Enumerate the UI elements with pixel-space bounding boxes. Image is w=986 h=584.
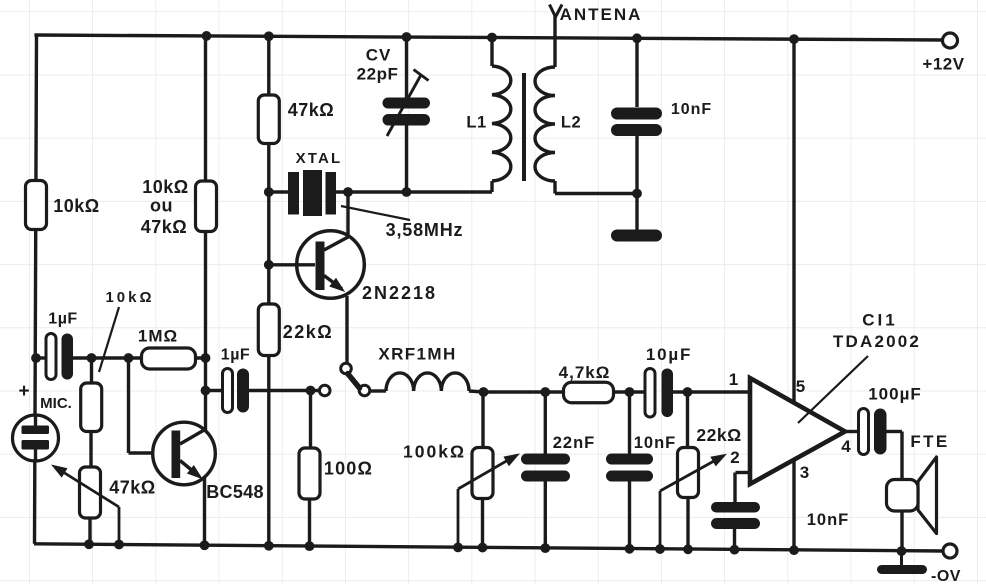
wire 2N2218 base bbox=[269, 263, 315, 266]
svg-text:10nF: 10nF bbox=[807, 511, 850, 529]
speaker FTE bbox=[918, 457, 937, 534]
microphone MIC electret bbox=[13, 415, 59, 461]
capacitor 1uF (mic) bbox=[46, 334, 56, 380]
junction 4,7k / 10uF bbox=[625, 387, 635, 397]
resistor 10k (left rail) bbox=[26, 181, 47, 230]
junction choke / 100k bbox=[479, 387, 489, 397]
wire to speaker bbox=[887, 430, 903, 433]
svg-text:L1: L1 bbox=[466, 114, 486, 132]
junction left rail / mic wire bbox=[31, 353, 41, 363]
junction bottom rail / 22k pot bbox=[683, 544, 693, 554]
wire pin5 branch bbox=[792, 39, 795, 404]
capacitor 10nF (filter) bbox=[628, 392, 631, 454]
svg-text:100Ω: 100Ω bbox=[324, 459, 373, 479]
junction 22nF branch bbox=[540, 387, 550, 397]
junction base branch bbox=[124, 353, 134, 363]
wire BC548 base bbox=[127, 358, 130, 453]
svg-text:4,7kΩ: 4,7kΩ bbox=[559, 363, 611, 382]
svg-text:1µF: 1µF bbox=[48, 311, 77, 328]
capacitor 10uF bbox=[645, 369, 655, 418]
svg-text:ANTENA: ANTENA bbox=[560, 5, 643, 24]
junction bottom rail / 47k wiper bbox=[114, 540, 124, 550]
antenna arrow bbox=[550, 5, 556, 18]
resistor 47k (oscillator bias) bbox=[258, 95, 279, 144]
svg-text:CI1: CI1 bbox=[862, 311, 897, 330]
resistor 100R bbox=[309, 391, 312, 449]
junction 10k branch bbox=[87, 353, 97, 363]
svg-text:BC548: BC548 bbox=[206, 482, 264, 502]
svg-text:22pF: 22pF bbox=[357, 65, 399, 84]
22k pot wiper arrow bbox=[659, 491, 662, 549]
47k pot wiper arrow bbox=[118, 507, 121, 545]
junction bottom rail / BC548 emitter bbox=[200, 540, 210, 550]
svg-text:5: 5 bbox=[796, 377, 805, 396]
resistor 10k ou 47k bbox=[196, 181, 217, 232]
junction top rail / 10nF branch bbox=[632, 33, 642, 43]
svg-text:TDA2002: TDA2002 bbox=[833, 332, 921, 351]
ground bar (output) bbox=[900, 551, 903, 566]
junction XTAL right / collector bbox=[343, 187, 353, 197]
wire speaker to ground bbox=[900, 511, 903, 551]
pointer CI1 bbox=[798, 356, 868, 423]
svg-text:MIC.: MIC. bbox=[40, 395, 72, 412]
svg-text:10kΩ: 10kΩ bbox=[142, 177, 188, 197]
switch pole (emitter side) bbox=[341, 363, 352, 374]
wire pin4 output bbox=[845, 430, 858, 433]
junction top rail / 47k branch bbox=[264, 31, 274, 41]
svg-text:2: 2 bbox=[730, 448, 739, 467]
junction bottom rail / 100R bbox=[305, 541, 315, 551]
wire switch to choke bbox=[371, 389, 386, 392]
wire mic coupling bbox=[36, 356, 47, 359]
wire 2N2218 collector bbox=[346, 192, 349, 236]
junction bottom rail / 22k wiper bbox=[655, 544, 665, 554]
100k pot wiper arrow bbox=[457, 489, 460, 547]
junction 100R branch bbox=[306, 386, 316, 396]
junction CV bottom bbox=[402, 187, 412, 197]
svg-text:3,58MHz: 3,58MHz bbox=[386, 220, 464, 240]
svg-text:10kΩ: 10kΩ bbox=[53, 196, 99, 216]
junction XTAL left bbox=[264, 187, 274, 197]
svg-text:10nF: 10nF bbox=[634, 434, 677, 452]
junction bottom rail / 10nF bbox=[625, 544, 635, 554]
capacitor 22nF bbox=[544, 392, 547, 454]
svg-text:ou: ou bbox=[150, 196, 173, 216]
switch pole (audio side) bbox=[319, 385, 330, 396]
junction bottom rail / 100k wiper bbox=[453, 542, 463, 552]
junction bottom rail / 22nF bbox=[540, 543, 550, 553]
svg-text:+: + bbox=[18, 381, 29, 402]
wire L1 top bbox=[490, 37, 493, 66]
potentiometer 100k bbox=[481, 392, 484, 448]
svg-text:10kΩ: 10kΩ bbox=[105, 289, 154, 306]
resistor 4,7k bbox=[564, 382, 614, 403]
wire 10k to 47k pot bbox=[89, 431, 92, 467]
junction top rail / rail2 bbox=[202, 31, 212, 41]
svg-text:1µF: 1µF bbox=[221, 347, 250, 364]
svg-text:3: 3 bbox=[800, 463, 809, 482]
junction bottom rail / pin3 bbox=[789, 545, 799, 555]
wire C-10nF top branch bbox=[635, 38, 638, 107]
wire L2 bottom elbow bbox=[553, 181, 556, 194]
svg-text:4: 4 bbox=[841, 437, 851, 456]
wire L1 bottom elbow bbox=[490, 181, 493, 192]
wire 2N2218 emitter bbox=[345, 296, 348, 364]
wire XTAL row left segment bbox=[269, 190, 290, 193]
svg-text:22nF: 22nF bbox=[553, 434, 596, 452]
junction bottom rail / pin2 cap bbox=[730, 545, 740, 555]
switch lever bbox=[348, 374, 360, 388]
pointer 3,58MHz bbox=[341, 206, 410, 220]
terminal +12V bbox=[943, 33, 958, 48]
svg-text:22kΩ: 22kΩ bbox=[696, 425, 741, 445]
svg-text:100µF: 100µF bbox=[868, 385, 922, 404]
capacitor CV 22pF trimmer plates bbox=[383, 98, 431, 109]
junction bottom rail / 22k line bbox=[264, 541, 274, 551]
junction bottom rail / speaker bbox=[897, 546, 907, 556]
resistor 1M (feedback) bbox=[142, 348, 196, 369]
junction 22k pot branch bbox=[683, 387, 693, 397]
svg-text:10nF: 10nF bbox=[671, 101, 712, 118]
wire CV branch bbox=[405, 37, 408, 98]
inductor XRF1MH choke bbox=[386, 373, 469, 391]
pin 2 stub bbox=[736, 471, 751, 474]
svg-text:22kΩ: 22kΩ bbox=[283, 322, 333, 342]
junction top rail / pin5 branch bbox=[789, 34, 799, 44]
wire audio line to amplifier bbox=[469, 391, 484, 392]
junction bottom rail / 47k pot bbox=[84, 539, 94, 549]
resistor 10k (mic bias) bbox=[90, 358, 93, 383]
svg-text:FTE: FTE bbox=[910, 432, 949, 451]
junction L2 bottom / 10nF bbox=[632, 189, 642, 199]
resistor 22k (base bias) bbox=[258, 304, 279, 356]
wire +12V top rail bbox=[34, 35, 943, 40]
wire rail2 (collector line) bbox=[204, 36, 207, 430]
potentiometer 22k bbox=[686, 392, 689, 448]
ground bar (tank) bbox=[611, 230, 662, 242]
svg-text:47kΩ: 47kΩ bbox=[109, 478, 155, 498]
inductor L1 bbox=[492, 66, 511, 181]
wire 47k/XTAL/22k line bbox=[267, 36, 270, 546]
capacitor 100uF bbox=[859, 409, 869, 455]
junction base / 22k bbox=[264, 260, 274, 270]
capacitor 10nF (pin2) bbox=[711, 502, 760, 513]
svg-text:-OV: -OV bbox=[931, 568, 961, 584]
svg-text:1: 1 bbox=[729, 370, 738, 389]
svg-text:10µF: 10µF bbox=[646, 345, 692, 364]
junction bottom rail / 100k pot bbox=[478, 543, 488, 553]
svg-text:XRF1MH: XRF1MH bbox=[378, 345, 456, 364]
svg-text:CV: CV bbox=[366, 46, 392, 65]
svg-text:100kΩ: 100kΩ bbox=[403, 442, 466, 462]
junction rail2 / 1M bbox=[201, 353, 211, 363]
svg-text:XTAL: XTAL bbox=[296, 150, 343, 167]
transistor Q2 BC548 bbox=[153, 422, 216, 485]
svg-text:2N2218: 2N2218 bbox=[362, 283, 437, 303]
svg-text:47kΩ: 47kΩ bbox=[141, 217, 187, 237]
svg-text:L2: L2 bbox=[561, 114, 581, 132]
svg-text:47kΩ: 47kΩ bbox=[288, 100, 334, 120]
crystal XTAL plates bbox=[288, 172, 299, 215]
wire BC548 emitter to ground bbox=[203, 478, 206, 545]
switch pole (coil side) bbox=[359, 385, 370, 396]
wire pin3 to ground bbox=[792, 459, 795, 550]
wire audio out of preamp bbox=[206, 389, 224, 392]
op-amp U1 TDA2002 bbox=[750, 378, 845, 484]
potentiometer 47k bbox=[80, 467, 101, 518]
junction top rail / L1 bbox=[487, 33, 497, 43]
junction rail2 / audio wire bbox=[201, 386, 211, 396]
capacitor 10nF (tank) plates bbox=[611, 108, 662, 120]
transistor Q1 2N2218 bbox=[297, 231, 365, 299]
capacitor 1uF (output coupling) bbox=[223, 369, 233, 413]
wire ground bottom rail bbox=[34, 544, 943, 551]
antenna lead bbox=[553, 16, 556, 67]
terminal -0V bbox=[943, 544, 957, 558]
wire XTAL row right segment bbox=[336, 190, 492, 193]
inductor L2 bbox=[535, 67, 555, 181]
svg-text:1MΩ: 1MΩ bbox=[138, 327, 178, 346]
transformer core bbox=[522, 73, 526, 181]
pointer 10k bbox=[99, 307, 119, 372]
svg-text:+12V: +12V bbox=[922, 55, 964, 74]
CV trimmer arrow bbox=[387, 74, 422, 136]
junction top rail / CV branch bbox=[402, 32, 412, 42]
wire left rail bbox=[35, 35, 37, 544]
